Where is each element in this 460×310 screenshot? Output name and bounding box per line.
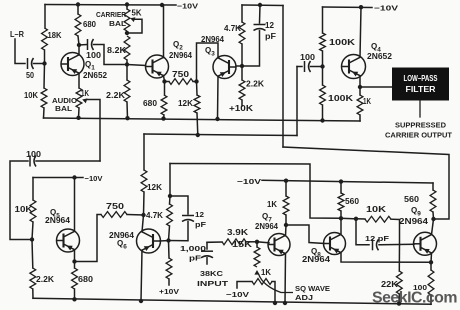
svg-text:3.9K: 3.9K (227, 228, 248, 237)
wiper arrow audio bal (82, 98, 87, 103)
node common emitter junction dot (429, 260, 433, 264)
label Q4 (371, 42, 381, 54)
wire sq wave wiper curve (259, 274, 294, 293)
wire 12pF mid bottom to Q6 base wire (169, 222, 189, 241)
wire 10K bottom to Q5 base node (32, 222, 33, 240)
wire x399 vertical down to 22K (398, 245, 400, 272)
node 680 dot on bus3 (72, 297, 76, 301)
capacitor 100 Q4 input (305, 61, 311, 72)
resistor 100K lower (320, 85, 326, 105)
svg-text:CARRIER OUTPUT: CARRIER OUTPUT (385, 133, 453, 140)
svg-text:CARRIER: CARRIER (96, 10, 127, 19)
svg-text:2N652: 2N652 (367, 52, 393, 61)
label +10V bottom (159, 287, 179, 296)
node junction dot top rail at 5K (125, 2, 129, 6)
transistor Q7 (268, 234, 290, 256)
label Q7 (262, 212, 272, 224)
svg-text:12K: 12K (178, 99, 193, 108)
resistor 100 right (428, 270, 434, 295)
node 680 dot on bus1 (161, 116, 165, 120)
wire Q2 base node down to 2.2K (126, 65, 128, 81)
svg-text:1K: 1K (267, 200, 277, 209)
label 100 right (413, 283, 427, 292)
svg-text:2N964: 2N964 (255, 222, 279, 231)
wire 10K right corner down (391, 219, 400, 244)
wiper arrow sq wave pot (254, 270, 259, 275)
wire 2.2K bottom-left top lead from Q5 base node (31, 240, 34, 269)
svg-text:15K: 15K (232, 240, 252, 249)
wire bus2 Q6 collector bus (144, 134, 297, 136)
label AUDIO BAL (52, 96, 77, 105)
wire 750 right to Q6 collector node (127, 214, 144, 217)
wire top rail segment 4.7K/12pF (242, 4, 283, 7)
wire 560 left top lead (340, 182, 342, 193)
wire bus1 audio bus (44, 118, 361, 121)
resistor 4.7K top (239, 22, 245, 44)
wire 1000pF bottom input stub (206, 258, 208, 264)
resistor 8.2K (124, 36, 130, 60)
svg-text:12: 12 (195, 210, 204, 219)
wire 560 right top lead from rail corner (432, 183, 434, 190)
resistor 680 top left (75, 14, 81, 36)
svg-text:2N652: 2N652 (83, 71, 108, 80)
svg-text:pF: pF (189, 254, 202, 263)
resistor 100K upper (320, 33, 326, 51)
wire 4.7K par node vertical (169, 164, 171, 197)
label 2.2K bottom left (36, 275, 54, 284)
svg-text:SeekIC.com: SeekIC.com (372, 290, 457, 307)
capacitor 12pF right (373, 239, 379, 250)
node 750 right junction dot (194, 79, 198, 83)
wire big vertical from rail to line A (282, 6, 284, 148)
wire 2.2K bottom stub to +10K (241, 100, 243, 106)
resistor 10K lower left (30, 200, 36, 222)
svg-text:pF: pF (195, 220, 206, 229)
svg-text:100: 100 (26, 150, 42, 159)
svg-text:1K: 1K (261, 268, 271, 277)
wire cap 50 to Q1 base (34, 63, 45, 65)
label 1,000 pF (180, 244, 206, 253)
label 2N964 Q5 (45, 216, 71, 225)
svg-text:100: 100 (300, 53, 316, 62)
svg-text:SQ WAVE: SQ WAVE (295, 284, 330, 293)
label 8.2K (107, 46, 126, 55)
node Q6 emitter dot on bus3 (139, 299, 143, 303)
svg-text:2N964: 2N964 (201, 35, 225, 44)
label 2N964 Q3 (201, 35, 225, 44)
label 12K top (178, 99, 193, 108)
label -10V bottom (226, 290, 249, 299)
svg-text:10K: 10K (15, 205, 33, 214)
transistor Q1 (61, 53, 84, 76)
svg-text:680: 680 (83, 20, 97, 29)
label 1K Q7 load (267, 200, 277, 209)
node Q6 base junction dot (166, 238, 170, 242)
node Q7 base junction dot (255, 240, 259, 244)
wire 1K Q7 collector load top from -10V rail (285, 181, 287, 197)
resistor 2.2K upper left (124, 80, 130, 102)
svg-text:2N964: 2N964 (399, 217, 429, 226)
svg-text:+10K: +10K (229, 104, 253, 113)
wire 1K bottom corner into bus1 (359, 115, 361, 121)
wire Q6 emitter down to bus3 (141, 250, 142, 301)
label 100 Q4 input (300, 53, 316, 62)
svg-text:4.7K: 4.7K (224, 24, 241, 33)
wire audio bal wiper to coupling node (87, 100, 100, 162)
label 10K upper left (24, 91, 38, 100)
wire 10K bottom corner to bus (43, 108, 46, 118)
node Q7 collector junction dot (284, 223, 288, 227)
svg-text:1K: 1K (81, 89, 89, 98)
label -10V top right (374, 4, 398, 13)
svg-text:12: 12 (265, 21, 275, 30)
svg-text:22K: 22K (381, 280, 398, 289)
svg-text:FILTER: FILTER (406, 85, 436, 94)
node Q1 collector junction dot (77, 43, 81, 47)
transistor Q9 (414, 232, 437, 255)
label 22K (381, 280, 398, 289)
resistor 560 left (338, 193, 344, 211)
wire 5K wiper loop (128, 19, 142, 33)
potentiometer 1K audio bal (76, 88, 82, 108)
label -10V lower rail (237, 177, 261, 186)
wire 4.7K lower bottom to Q6 base node (169, 226, 170, 241)
transistor Q3 mirrored (213, 56, 236, 79)
node 560 left dot on rail (339, 179, 343, 183)
wire Q4 base node to 100K lower (322, 67, 324, 86)
node 10K/12pF left junction dot (354, 217, 358, 221)
wire 4.7K bottom to Q3 base node (241, 44, 243, 66)
label 4.7K lower (146, 211, 163, 220)
svg-text:1,000: 1,000 (180, 244, 206, 253)
resistor 680 bottom left (72, 268, 78, 289)
wire cap 100 to Q2 base with corner (94, 45, 128, 65)
node junction dot top rail at Q2 collector (160, 3, 164, 7)
label 680 bottom left (78, 275, 94, 284)
svg-text:2N964: 2N964 (302, 255, 331, 264)
wire cap 100 left to L corner down to Q5 base (10, 161, 32, 240)
svg-text:LOW–PASS: LOW–PASS (404, 74, 439, 83)
label 750 top (172, 70, 190, 79)
wire top -10V rail left segment (45, 4, 176, 7)
svg-text:750: 750 (106, 202, 125, 211)
wire 18K bottom to Q1 base node (44, 50, 46, 64)
svg-text:50: 50 (26, 71, 34, 80)
wire 680 bottom to bus (163, 115, 166, 119)
wire Q1 collector node to coupling cap 100 (79, 44, 87, 47)
wire 12K mid top lead from bus2 (143, 134, 145, 170)
svg-text:INPUT: INPUT (197, 279, 229, 288)
svg-text:10K: 10K (366, 205, 386, 214)
svg-text:560: 560 (345, 197, 360, 206)
svg-text:560: 560 (404, 195, 420, 204)
resistor 4.7K lower (167, 204, 173, 226)
resistor 10K upper left (41, 88, 47, 108)
wire Q7 collector up to node (285, 225, 288, 236)
wire 100K upper bottom to Q4 base node (322, 51, 324, 67)
svg-text:−10V: −10V (85, 174, 103, 183)
capacitor 100 interstage Q1-Q2 (88, 39, 94, 50)
node 22K dot on bus3 (397, 301, 401, 305)
label Q9 (411, 206, 421, 218)
label 2.2K Q3 (246, 80, 264, 89)
wire Q4 emitter down to output node (359, 76, 361, 87)
svg-text:−10V: −10V (177, 2, 198, 11)
node Q3 emitter dot on bus1 (215, 117, 219, 121)
resistor 15K (254, 247, 260, 267)
label 3.9K (227, 228, 248, 237)
label 560 left (345, 197, 360, 206)
wire top -10V rail right segment (323, 6, 373, 9)
label 18K (48, 31, 62, 40)
svg-text:1K: 1K (363, 97, 371, 106)
svg-text:2.2K: 2.2K (106, 91, 125, 100)
node Q6 collector junction dot (141, 213, 145, 217)
wire Q4 emitter node to low-pass filter box (360, 86, 392, 88)
label 50 (26, 71, 34, 80)
resistor 18K (42, 28, 48, 50)
svg-text:SUPPRESSED: SUPPRESSED (395, 123, 446, 130)
wire x297 vertical cap to bus2 (296, 67, 298, 136)
transistor Q8 (324, 233, 346, 255)
wire 12K top lead from 750 node (196, 82, 199, 96)
label 100K upper (329, 38, 355, 47)
resistor 3.9K (222, 239, 246, 245)
svg-text:−10V: −10V (237, 177, 261, 186)
node 5K bottom junction dot (125, 31, 129, 35)
watermark SeekIC.com (372, 290, 457, 307)
resistor 1K Q7 load (283, 196, 289, 215)
wire Q4 collector to rail (360, 7, 361, 57)
label 2N964 Q9 (399, 217, 429, 226)
node junction dot top rail at 680 (76, 2, 80, 6)
wire 680 bottom to Q1 collector node (78, 36, 79, 45)
wire cap 100 left lead from x297 vertical (297, 66, 302, 68)
label 560 right (404, 195, 420, 204)
node Q4 base junction dot (320, 64, 324, 68)
resistor 750 bottom section (101, 212, 127, 218)
node Q9 collector junction dot (431, 217, 435, 221)
wire audio bal pot top lead from Q1 emitter (78, 73, 80, 88)
transistor Q5 (57, 229, 80, 252)
wire 12K bottom down across bus1 to bus2 (196, 113, 199, 135)
wire Q6 collector up to node (142, 215, 144, 232)
svg-text:BAL: BAL (109, 19, 126, 28)
node Q3 base junction dot (240, 64, 244, 68)
svg-text:ADJ: ADJ (295, 293, 313, 302)
label 12 pF top (265, 21, 275, 30)
label Q1 (85, 60, 95, 72)
wire 680 top lead from rail (77, 5, 79, 15)
label SUPPRESSED CARRIER OUTPUT (395, 123, 446, 130)
wire Q3 collector path from 750 node (197, 43, 219, 82)
wire 18K top lead from rail (44, 5, 46, 29)
wire 12pF mid top lead (170, 196, 188, 214)
svg-text:BAL: BAL (55, 104, 72, 113)
wire Q8 emitter to common emitter run (341, 252, 431, 262)
wire 8.2K bottom to Q2 base node (126, 60, 128, 65)
wire 680 Q2 emitter resistor top lead (164, 82, 166, 96)
svg-text:12K: 12K (147, 183, 162, 192)
label 10K right (366, 205, 386, 214)
label 2N652 Q1 (83, 71, 108, 80)
capacitor 12pF mid (182, 216, 194, 222)
resistor 560 right (430, 190, 436, 212)
svg-text:8.2K: 8.2K (107, 46, 126, 55)
label 38KC INPUT (200, 269, 224, 278)
wire Q9 emitter down to common node (430, 253, 433, 262)
node Q7 emitter dot on bus3 (283, 301, 287, 305)
wire 680 bottom-left top lead (74, 262, 76, 269)
svg-text:−10V: −10V (226, 290, 249, 299)
wire Q5 emitter node to 750 via corner (75, 215, 102, 262)
svg-text:4.7K: 4.7K (146, 211, 163, 220)
wire 2.2K (Q3) top lead (241, 66, 243, 80)
wire low-pass filter output lead (419, 101, 421, 118)
wire 3.9K to Q7 base node (246, 241, 257, 243)
svg-text:680: 680 (78, 275, 94, 284)
wire bus3 +10V bottom bus (33, 298, 431, 304)
wire Q1 collector up to node (78, 45, 80, 55)
label Q8 (311, 247, 321, 259)
svg-text:L–R: L–R (10, 30, 24, 39)
wire 1K Q4 top lead (359, 87, 361, 95)
resistor 750 top section (165, 81, 170, 83)
node pot right dot on bus3 (273, 301, 277, 305)
label 2N964 Q6 (109, 231, 135, 240)
resistor 22K (396, 271, 402, 294)
label -10V mid left (85, 174, 103, 183)
wire Q3 base to 2.2K node (236, 65, 242, 67)
label 10K lower left (15, 205, 33, 214)
label +10K supply stub (229, 104, 253, 113)
label 680 top left (83, 20, 97, 29)
label 100K lower (328, 94, 353, 103)
label 2.2K upper left (106, 91, 125, 100)
resistor 2.2K Q3 bias (239, 80, 245, 100)
svg-text:+10V: +10V (159, 287, 179, 296)
label 4.7K top (224, 24, 241, 33)
wire 2.2K bottom to bus (126, 102, 129, 118)
node Q2 emitter junction dot (162, 79, 166, 83)
wire sq wave pot right to bus3 (272, 282, 275, 304)
node Q5 base junction dot (30, 237, 34, 241)
svg-text:750: 750 (172, 70, 190, 79)
label 12K mid (147, 183, 162, 192)
label 12pF right (365, 234, 390, 243)
label 2N964 Q8 (302, 255, 331, 264)
svg-text:18K: 18K (48, 31, 62, 40)
label 750 bottom (106, 202, 125, 211)
label 680 Q2 emitter (143, 99, 158, 108)
potentiometer 1K sq wave adj (252, 279, 272, 285)
svg-text:pF: pF (265, 32, 276, 41)
svg-text:2.2K: 2.2K (246, 80, 264, 89)
wire Q2 collector up to rail (163, 5, 165, 58)
capacitor 100 to Q5 (30, 156, 36, 167)
label 1K Q4 (363, 97, 371, 106)
node Q5 collector dot on -10V feed (72, 175, 76, 179)
svg-text:38KC: 38KC (200, 269, 224, 278)
transistor Q6 mirrored (137, 229, 161, 253)
wire Q7 emitter down to bus3 (284, 253, 287, 303)
potentiometer 5K carrier bal (124, 9, 130, 31)
wire 1K bottom to Q7 collector node (285, 215, 287, 225)
label -10V top left (177, 2, 198, 11)
svg-text:2N964: 2N964 (169, 51, 193, 60)
wire 560 left bottom to Q8 collector node (340, 211, 342, 218)
wire Q2 base node to Q2 (127, 65, 146, 66)
wire L-R input drop (15, 39, 25, 64)
svg-text:2N964: 2N964 (45, 216, 71, 225)
wire Q3 emitter down to bus1 (217, 77, 220, 120)
wire Q6 base to base node (160, 240, 169, 243)
wire 12pF bottom lead to Q3 base node (242, 31, 260, 67)
label 2N652 Q4 (367, 52, 393, 61)
wire cap 100 right to Q4 base node (311, 66, 323, 68)
label 100 interstage (86, 51, 102, 60)
wire 12pF right left lead (356, 219, 369, 245)
svg-text:12 pF: 12 pF (365, 234, 390, 243)
node 1K load dot on rail (284, 179, 288, 183)
wire sq wave pot left to -10V stub (237, 282, 252, 289)
wire Q2 emitter down to 750 node (164, 76, 165, 82)
node Q1 base junction dot (42, 61, 46, 65)
wire 12pF top lead (259, 5, 262, 23)
wire -10V mid-left feed (33, 177, 83, 179)
label 12 pF mid (195, 210, 204, 219)
wire 100 right top lead (430, 262, 432, 270)
wire 10K right lead-in (356, 218, 365, 220)
label 1K audio bal (81, 89, 89, 98)
wire 12K mid bottom to Q6 collector node (143, 192, 146, 215)
label 100 mid left (26, 150, 42, 159)
svg-text:10K: 10K (24, 91, 38, 100)
node audio pot bottom dot on bus1 (76, 116, 80, 120)
wire Q1 base node down to 10K (43, 64, 46, 89)
node Q4 collector rail dot (359, 5, 363, 9)
label 5K (132, 9, 142, 18)
resistor 680 Q2 emitter (161, 95, 167, 115)
wire Q7 base node to Q7 (257, 242, 269, 243)
svg-text:100K: 100K (328, 94, 353, 103)
node 4.7K/12pF parallel top dot (168, 194, 172, 198)
label Q2 (173, 40, 183, 52)
node Q5 emitter junction dot (72, 259, 76, 263)
node 12pF top dot on rail (258, 3, 262, 7)
wire 10K lower-left top lead (32, 178, 34, 201)
wire -10V rail lower section (262, 180, 433, 183)
wire Q6 bias resistor top lead (168, 241, 171, 259)
svg-text:100: 100 (86, 51, 102, 60)
label 1K sq wave (261, 268, 271, 277)
node 12K bottom dot on bus2 (196, 133, 200, 137)
wire 22K bottom to bus3 (398, 294, 400, 304)
transistor Q2 (146, 55, 169, 78)
resistor 12K mid (141, 170, 147, 192)
wire 2.2K bottom corner to bus3 (32, 289, 34, 298)
wire line A to Q9 collector (283, 147, 449, 219)
wire 100K lower bottom to bus1 (322, 105, 324, 121)
wire line B from 4.7K node (170, 164, 341, 219)
label CARRIER BAL (96, 10, 127, 19)
label Q5 (50, 208, 60, 220)
wire 100K upper top lead (322, 7, 324, 33)
label Q3 (205, 46, 215, 58)
wire Q5 collector up to -10V feed (74, 178, 76, 232)
wire Q8 collector up to node (340, 218, 342, 234)
wire 560 right bottom to Q9 collector node (432, 212, 435, 219)
